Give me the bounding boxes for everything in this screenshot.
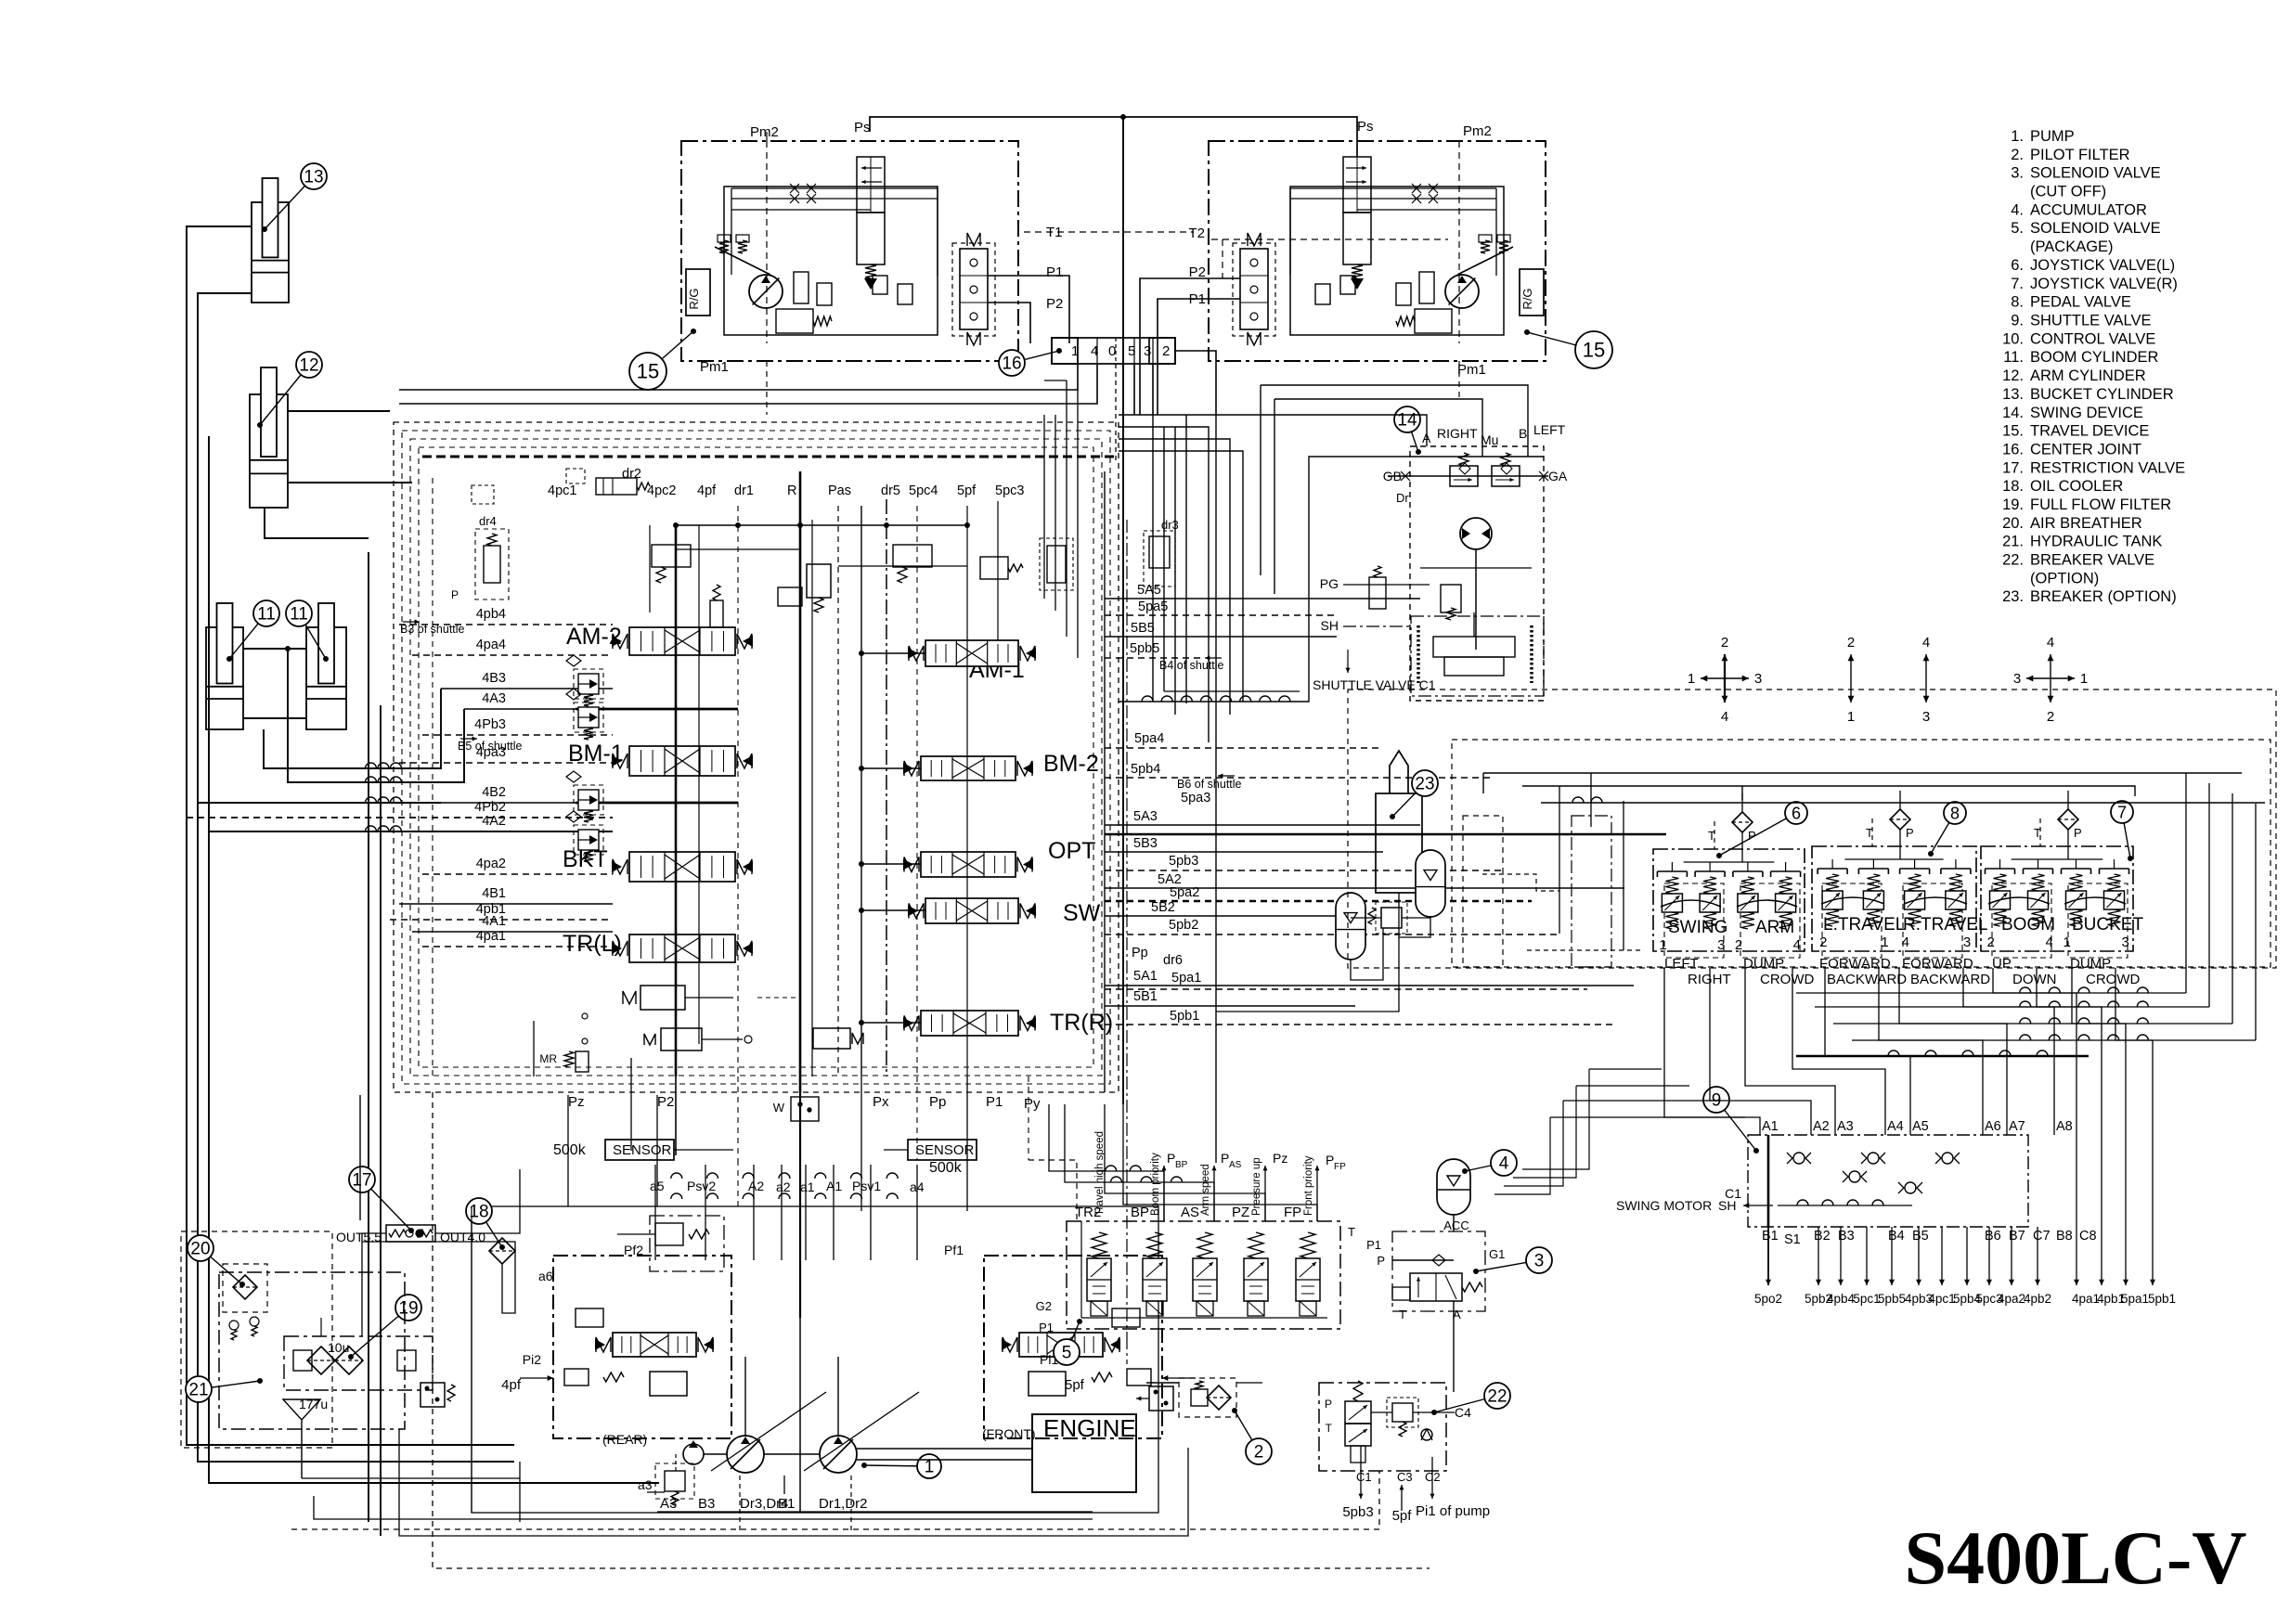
svg-text:PILOT FILTER: PILOT FILTER: [2030, 147, 2130, 163]
svg-text:11: 11: [257, 605, 276, 625]
svg-text:4: 4: [1499, 1154, 1509, 1174]
control valve bottom labels: [568, 1094, 1041, 1121]
svg-text:5pa1: 5pa1: [2121, 1292, 2149, 1306]
svg-text:22.: 22.: [2002, 552, 2024, 569]
accumulator 4: [1437, 1150, 1517, 1232]
svg-text:3: 3: [1717, 937, 1725, 953]
svg-text:RIGHT: RIGHT: [1437, 426, 1478, 441]
svg-text:2: 2: [1987, 934, 1995, 950]
svg-text:R/G: R/G: [687, 288, 701, 309]
svg-text:4pb2: 4pb2: [2024, 1292, 2051, 1306]
svg-text:C8: C8: [2079, 1229, 2097, 1244]
svg-text:3: 3: [1922, 709, 1930, 725]
svg-text:a6: a6: [538, 1269, 553, 1283]
svg-text:a2: a2: [776, 1179, 791, 1194]
svg-text:4: 4: [2047, 635, 2054, 651]
svg-text:dr6: dr6: [1163, 953, 1183, 968]
svg-text:A6: A6: [1985, 1119, 2001, 1134]
svg-text:Pf1: Pf1: [944, 1243, 964, 1257]
svg-text:B3: B3: [698, 1496, 715, 1512]
svg-text:4pb4: 4pb4: [476, 607, 506, 622]
svg-text:8: 8: [1950, 804, 1960, 822]
svg-text:4: 4: [1721, 709, 1728, 725]
travel device left internal lines: [731, 184, 938, 276]
svg-text:Pz: Pz: [568, 1094, 585, 1110]
svg-text:Dr1,Dr2: Dr1,Dr2: [819, 1496, 868, 1512]
joystick direction cross 1: [1688, 635, 1762, 725]
svg-text:B6: B6: [1985, 1229, 2001, 1244]
svg-text:L.TRAVEL: L.TRAVEL: [1823, 915, 1905, 934]
pump pilot valve psv2: [617, 1216, 724, 1271]
svg-text:5B3: 5B3: [1133, 836, 1158, 851]
svg-text:P1: P1: [1046, 264, 1063, 280]
breaker valve 22: [1319, 1381, 1510, 1524]
svg-text:5B1: 5B1: [1133, 989, 1158, 1004]
svg-text:5pb2: 5pb2: [1169, 918, 1198, 933]
svg-text:A1: A1: [1762, 1119, 1779, 1134]
svg-text:DOWN: DOWN: [2012, 972, 2057, 987]
svg-text:10.: 10.: [2002, 330, 2024, 347]
svg-text:ACC: ACC: [1443, 1218, 1468, 1232]
pump top labels: [538, 1179, 964, 1283]
svg-text:4: 4: [1793, 937, 1801, 953]
svg-text:A8: A8: [2056, 1119, 2073, 1134]
svg-text:5pc3: 5pc3: [995, 483, 1024, 498]
wire top bus into control valve right: [1044, 380, 1078, 658]
svg-text:C7: C7: [2033, 1229, 2051, 1244]
svg-text:R/G: R/G: [1520, 288, 1534, 309]
svg-text:A4: A4: [1887, 1119, 1904, 1134]
full flow filter 19: [283, 1295, 433, 1478]
svg-text:LEFT: LEFT: [1533, 422, 1566, 437]
svg-text:BACKWARD: BACKWARD: [1910, 972, 1990, 987]
svg-text:1: 1: [925, 1458, 935, 1477]
svg-text:3: 3: [1144, 343, 1151, 359]
svg-text:Pm1: Pm1: [700, 359, 729, 375]
svg-text:5pb3: 5pb3: [1169, 854, 1198, 869]
joystick direction arrow 2: [1847, 635, 1855, 725]
svg-text:5A1: 5A1: [1133, 969, 1158, 984]
control valve section labels: [563, 624, 1113, 1036]
spool valve BM-1: [612, 746, 753, 776]
control valve central ladder: [674, 506, 970, 1076]
svg-text:(REAR): (REAR): [602, 1432, 647, 1447]
control valve internal verticals: [650, 471, 1127, 1336]
travel device valve enclosures: [767, 243, 1459, 415]
control valve left feed lines: [187, 625, 738, 947]
wire boom cylinder manifold: [243, 647, 306, 719]
svg-text:Pz: Pz: [1273, 1151, 1287, 1166]
svg-text:P: P: [1377, 1254, 1385, 1268]
svg-text:P1: P1: [986, 1094, 1003, 1110]
svg-text:4A1: 4A1: [482, 914, 506, 929]
travel device right internal lines: [1290, 184, 1496, 276]
wire control valve bottom drops: [631, 1058, 1029, 1318]
svg-text:(CUT OFF): (CUT OFF): [2030, 184, 2106, 200]
svg-text:15: 15: [1583, 339, 1605, 362]
svg-text:CROWD: CROWD: [2086, 972, 2140, 987]
svg-text:17.: 17.: [2002, 459, 2024, 476]
svg-text:JOYSTICK VALVE(R): JOYSTICK VALVE(R): [2030, 276, 2178, 292]
svg-text:Front priority: Front priority: [1303, 1155, 1314, 1216]
wire pump top drops: [655, 1165, 917, 1260]
svg-text:2: 2: [1847, 635, 1855, 651]
svg-text:500k: 500k: [553, 1142, 587, 1158]
svg-text:0: 0: [1108, 343, 1116, 359]
svg-text:4pf: 4pf: [697, 483, 717, 498]
svg-text:Ps: Ps: [854, 120, 871, 135]
pump regulator front: [982, 1256, 1196, 1441]
svg-text:B4: B4: [1888, 1229, 1905, 1244]
svg-text:SW: SW: [1063, 900, 1101, 926]
svg-text:SENSOR: SENSOR: [915, 1142, 975, 1158]
svg-text:15.: 15.: [2002, 423, 2024, 440]
pump main circles: [683, 1357, 941, 1478]
svg-text:FORWARD: FORWARD: [1819, 956, 1891, 972]
control valve right feed lines: [1105, 599, 1666, 1025]
svg-text:T2: T2: [1188, 226, 1205, 241]
svg-text:2: 2: [1721, 635, 1728, 651]
svg-text:Pi2: Pi2: [523, 1352, 541, 1367]
svg-text:(OPTION): (OPTION): [2030, 570, 2099, 586]
svg-text:TRAVEL DEVICE: TRAVEL DEVICE: [2030, 423, 2149, 440]
control valve right port labels: [1130, 583, 1242, 1024]
svg-text:a1: a1: [800, 1179, 815, 1194]
pilot valve 4pc1-dr2: [566, 469, 650, 495]
svg-text:ARM: ARM: [1755, 918, 1794, 937]
svg-text:P: P: [2074, 826, 2082, 840]
accumulator small right: [1416, 850, 1445, 917]
svg-text:BP: BP: [1175, 1160, 1188, 1170]
svg-text:1: 1: [2064, 934, 2071, 950]
oil cooler 18: [466, 1198, 515, 1264]
shuttle valve port drops: [1754, 1227, 2176, 1306]
svg-text:16: 16: [1002, 354, 1021, 374]
svg-text:S400LC-V: S400LC-V: [1904, 1515, 2246, 1600]
svg-text:6.: 6.: [2011, 257, 2024, 274]
svg-text:4B2: 4B2: [482, 785, 506, 800]
svg-text:CROWD: CROWD: [1760, 972, 1814, 987]
svg-text:ACCUMULATOR: ACCUMULATOR: [2030, 201, 2147, 218]
svg-text:Ps: Ps: [1357, 119, 1374, 135]
svg-text:Px: Px: [873, 1094, 889, 1110]
svg-text:1: 1: [2080, 671, 2088, 687]
svg-text:500k: 500k: [929, 1160, 963, 1176]
svg-text:T: T: [1348, 1225, 1355, 1239]
svg-text:14: 14: [1397, 411, 1417, 431]
svg-text:5pc4: 5pc4: [909, 483, 938, 498]
svg-text:OPT: OPT: [1048, 838, 1095, 864]
svg-text:4pf: 4pf: [501, 1377, 522, 1393]
svg-text:A5: A5: [1912, 1119, 1929, 1134]
svg-text:BUCKET CYLINDER: BUCKET CYLINDER: [2030, 386, 2174, 403]
wire tank connections: [302, 1095, 520, 1478]
svg-text:P1: P1: [1366, 1238, 1381, 1252]
svg-text:P1: P1: [1039, 1321, 1054, 1334]
svg-text:G2: G2: [1036, 1299, 1052, 1313]
pump regulator rear: [501, 1256, 731, 1447]
svg-text:13.: 13.: [2002, 386, 2024, 403]
svg-text:CONTROL VALVE: CONTROL VALVE: [2030, 330, 2155, 347]
svg-text:20.: 20.: [2002, 515, 2024, 532]
restriction valve 17: [336, 1166, 485, 1244]
svg-text:Pm2: Pm2: [750, 124, 779, 140]
svg-text:Pf2: Pf2: [624, 1243, 643, 1257]
boom cylinder 11 left: [206, 600, 279, 729]
svg-text:Psv2: Psv2: [687, 1179, 716, 1193]
pilot valve dr4: [451, 485, 509, 601]
svg-text:5pa4: 5pa4: [1134, 731, 1164, 746]
svg-text:B8: B8: [2056, 1229, 2073, 1244]
svg-text:SWING MOTOR: SWING MOTOR: [1616, 1198, 1712, 1213]
svg-text:C1: C1: [1725, 1186, 1741, 1201]
svg-text:R: R: [787, 483, 796, 498]
svg-text:B: B: [1519, 426, 1527, 441]
wire pilot supply dashed box: [1348, 690, 2276, 968]
svg-text:JOYSTICK VALVE(L): JOYSTICK VALVE(L): [2030, 257, 2175, 274]
pedal valve 8: [1812, 791, 1990, 987]
svg-text:1: 1: [1659, 937, 1666, 953]
svg-text:FP: FP: [1334, 1162, 1346, 1172]
joystick valve 6 left: [1653, 793, 1814, 987]
svg-text:P: P: [1221, 1151, 1229, 1166]
svg-text:5pf: 5pf: [957, 483, 977, 498]
svg-text:A7: A7: [2009, 1119, 2025, 1134]
svg-text:11: 11: [290, 605, 308, 625]
svg-text:B1: B1: [1762, 1229, 1779, 1244]
svg-text:BUCKET: BUCKET: [2072, 915, 2143, 934]
svg-text:2: 2: [1819, 934, 1827, 950]
bucket cylinder 13: [252, 163, 327, 303]
svg-text:4B1: 4B1: [482, 886, 506, 901]
control valve internal components top: [652, 518, 1179, 627]
svg-text:1.: 1.: [2011, 128, 2024, 145]
pilot filter 2: [1136, 1378, 1272, 1464]
wire bottom buses: [291, 1092, 1430, 1568]
shuttle valve 9: [1616, 1087, 2097, 1247]
svg-text:SH: SH: [1321, 618, 1339, 633]
wire left bus from cylinders: [187, 226, 659, 1536]
svg-text:5pb1: 5pb1: [2148, 1292, 2176, 1306]
svg-text:dr4: dr4: [479, 514, 497, 528]
svg-text:DUMP: DUMP: [2070, 956, 2111, 972]
svg-text:5pf: 5pf: [1392, 1508, 1413, 1524]
svg-text:1: 1: [1881, 934, 1888, 950]
svg-text:19.: 19.: [2002, 496, 2024, 513]
spool valve AM-2: [612, 627, 753, 655]
svg-text:18: 18: [469, 1203, 488, 1222]
svg-text:20: 20: [190, 1240, 210, 1259]
svg-text:(PACKAGE): (PACKAGE): [2030, 238, 2114, 255]
svg-text:C1: C1: [1356, 1470, 1372, 1484]
svg-text:S1: S1: [1784, 1232, 1801, 1247]
svg-text:4pa2: 4pa2: [476, 857, 506, 871]
relief valves in control valve: [566, 655, 603, 862]
svg-text:2.: 2.: [2011, 147, 2024, 163]
svg-text:BM-2: BM-2: [1043, 751, 1099, 777]
wire center joint verticals: [399, 351, 1216, 464]
svg-text:P: P: [451, 588, 459, 601]
svg-text:a3: a3: [638, 1477, 653, 1492]
control valve 10 boundary: [394, 422, 1119, 1092]
svg-text:12.: 12.: [2002, 367, 2024, 384]
control valve top port labels: [548, 467, 1024, 498]
sensor labels: [553, 1140, 977, 1176]
svg-text:8.: 8.: [2011, 294, 2024, 311]
svg-text:5pb1: 5pb1: [1170, 1009, 1199, 1024]
svg-text:5B2: 5B2: [1151, 900, 1175, 915]
solenoid valve 3 cutoff: [1366, 1215, 1552, 1392]
svg-text:Travel high speed: Travel high speed: [1094, 1131, 1106, 1216]
svg-text:5pb5: 5pb5: [1130, 641, 1159, 656]
svg-text:dr5: dr5: [881, 483, 900, 498]
pump bottom labels: [638, 1454, 868, 1533]
svg-text:SHUTTLE VALVE C1: SHUTTLE VALVE C1: [1313, 677, 1436, 692]
svg-text:dr1: dr1: [734, 483, 754, 498]
svg-text:4pb4: 4pb4: [1827, 1292, 1856, 1306]
svg-text:16.: 16.: [2002, 442, 2024, 458]
svg-text:MR: MR: [539, 1052, 557, 1065]
svg-text:P: P: [1167, 1151, 1175, 1166]
breaker relief valve: [1216, 893, 1430, 1012]
svg-text:PEDAL VALVE: PEDAL VALVE: [2030, 294, 2131, 311]
svg-text:5pa3: 5pa3: [1181, 791, 1210, 806]
center joint 16: [999, 338, 1175, 376]
svg-text:4pc2: 4pc2: [647, 483, 676, 498]
svg-text:B2: B2: [1814, 1229, 1831, 1244]
hydraulic tank 21: [181, 1231, 455, 1448]
svg-text:SENSOR: SENSOR: [613, 1142, 672, 1158]
svg-text:ENGINE: ENGINE: [1043, 1414, 1136, 1442]
svg-text:ARM CYLINDER: ARM CYLINDER: [2030, 367, 2146, 384]
svg-text:21: 21: [188, 1381, 208, 1400]
svg-text:3: 3: [1754, 671, 1762, 687]
svg-text:BOOM: BOOM: [2001, 915, 2055, 934]
svg-text:dr2: dr2: [622, 467, 641, 482]
svg-text:B4 of shuttle: B4 of shuttle: [1159, 659, 1224, 672]
pilot station sub boxes: [1664, 883, 2128, 958]
svg-text:5pf: 5pf: [1065, 1377, 1085, 1393]
wire engine drive shaft: [857, 1449, 1032, 1460]
svg-text:Arm speed: Arm speed: [1200, 1164, 1211, 1216]
svg-text:1: 1: [1847, 709, 1855, 725]
svg-text:Boom priority: Boom priority: [1150, 1153, 1161, 1216]
svg-text:DUMP: DUMP: [1743, 956, 1784, 972]
svg-text:B6 of shuttle: B6 of shuttle: [1177, 778, 1242, 791]
svg-text:2: 2: [1162, 343, 1170, 359]
spool valve OPT: [903, 852, 1033, 877]
svg-text:(FRONT): (FRONT): [982, 1426, 1036, 1441]
svg-text:HYDRAULIC TANK: HYDRAULIC TANK: [2030, 534, 2162, 550]
pump unit 1 outer box: [472, 1206, 1158, 1513]
svg-text:P2: P2: [657, 1094, 674, 1110]
svg-text:B5: B5: [1912, 1229, 1929, 1244]
swing device 14: [1313, 406, 1568, 701]
svg-text:SWING: SWING: [1668, 918, 1727, 937]
svg-text:B1: B1: [778, 1496, 795, 1512]
joystick direction cross 4: [2013, 635, 2088, 725]
svg-text:GA: GA: [1548, 469, 1568, 483]
svg-text:21.: 21.: [2002, 534, 2024, 550]
control valve left port labels: [400, 607, 523, 944]
svg-text:T: T: [1399, 1308, 1406, 1321]
svg-text:C3: C3: [1397, 1470, 1413, 1484]
svg-text:OIL COOLER: OIL COOLER: [2030, 478, 2123, 495]
svg-text:CENTER JOINT: CENTER JOINT: [2030, 442, 2141, 458]
svg-text:A3: A3: [1837, 1119, 1854, 1134]
svg-text:PZ: PZ: [1232, 1205, 1249, 1220]
svg-text:4pc1: 4pc1: [548, 483, 576, 498]
svg-text:A2: A2: [748, 1179, 764, 1193]
accumulator small left: [1336, 893, 1365, 960]
svg-text:1: 1: [1688, 671, 1695, 687]
svg-text:3: 3: [1963, 934, 1971, 950]
svg-text:Pm1: Pm1: [1457, 362, 1486, 378]
svg-text:14.: 14.: [2002, 405, 2024, 421]
svg-text:BP: BP: [1131, 1205, 1149, 1220]
boom cylinder 11 right: [286, 600, 346, 729]
svg-text:23.: 23.: [2002, 588, 2024, 605]
svg-text:5A5: 5A5: [1137, 583, 1161, 598]
svg-text:17: 17: [352, 1171, 371, 1191]
engine: [1032, 1414, 1136, 1492]
wire horizontal bus rows right bottom: [1494, 1050, 2089, 1194]
svg-text:4pa4: 4pa4: [476, 638, 506, 652]
svg-text:Pp: Pp: [929, 1094, 946, 1110]
svg-text:13: 13: [304, 168, 323, 187]
svg-text:Pm2: Pm2: [1463, 123, 1492, 139]
svg-text:4Pb3: 4Pb3: [474, 717, 506, 732]
svg-text:R.TRAVEL: R.TRAVEL: [1903, 915, 1988, 934]
svg-text:C4: C4: [1455, 1405, 1471, 1420]
svg-text:LEFT: LEFT: [1664, 956, 1699, 972]
svg-text:FULL FLOW FILTER: FULL FLOW FILTER: [2030, 496, 2171, 513]
svg-text:Pp: Pp: [1132, 946, 1148, 960]
svg-text:BREAKER VALVE: BREAKER VALVE: [2030, 552, 2154, 569]
svg-text:9.: 9.: [2011, 313, 2024, 329]
svg-text:2: 2: [2047, 709, 2054, 725]
svg-text:SOLENOID VALVE: SOLENOID VALVE: [2030, 220, 2161, 237]
svg-text:4pc1: 4pc1: [1928, 1292, 1955, 1306]
svg-text:PG: PG: [1320, 576, 1339, 591]
svg-text:Pi1 of pump: Pi1 of pump: [1416, 1503, 1490, 1519]
svg-text:FORWARD: FORWARD: [1902, 956, 1973, 972]
spool valve AM-1: [908, 640, 1036, 666]
svg-text:G1: G1: [1489, 1247, 1505, 1261]
svg-text:P: P: [1325, 1398, 1332, 1411]
svg-text:5pb4: 5pb4: [1131, 762, 1160, 777]
svg-text:3: 3: [2122, 934, 2129, 950]
legend parts list: [2002, 128, 2185, 605]
travel device 15 right: [1188, 119, 1612, 378]
svg-text:Psv1: Psv1: [852, 1179, 881, 1193]
svg-text:4.: 4.: [2011, 201, 2024, 218]
svg-text:3.: 3.: [2011, 165, 2024, 182]
spool valve TR-L: [612, 934, 753, 962]
svg-text:Mu: Mu: [1481, 432, 1498, 447]
svg-text:W: W: [773, 1101, 785, 1115]
main relief valve MR: [534, 1021, 589, 1076]
svg-text:5A3: 5A3: [1133, 809, 1158, 824]
svg-text:Pas: Pas: [828, 483, 851, 498]
svg-text:5pb5: 5pb5: [1878, 1292, 1906, 1306]
svg-text:Py: Py: [1024, 1096, 1041, 1112]
svg-text:RIGHT: RIGHT: [1688, 972, 1731, 987]
svg-text:2: 2: [1254, 1443, 1264, 1463]
svg-text:Preesure up: Preesure up: [1251, 1157, 1262, 1216]
svg-text:BREAKER (OPTION): BREAKER (OPTION): [2030, 588, 2177, 605]
svg-text:4B3: 4B3: [482, 671, 506, 686]
